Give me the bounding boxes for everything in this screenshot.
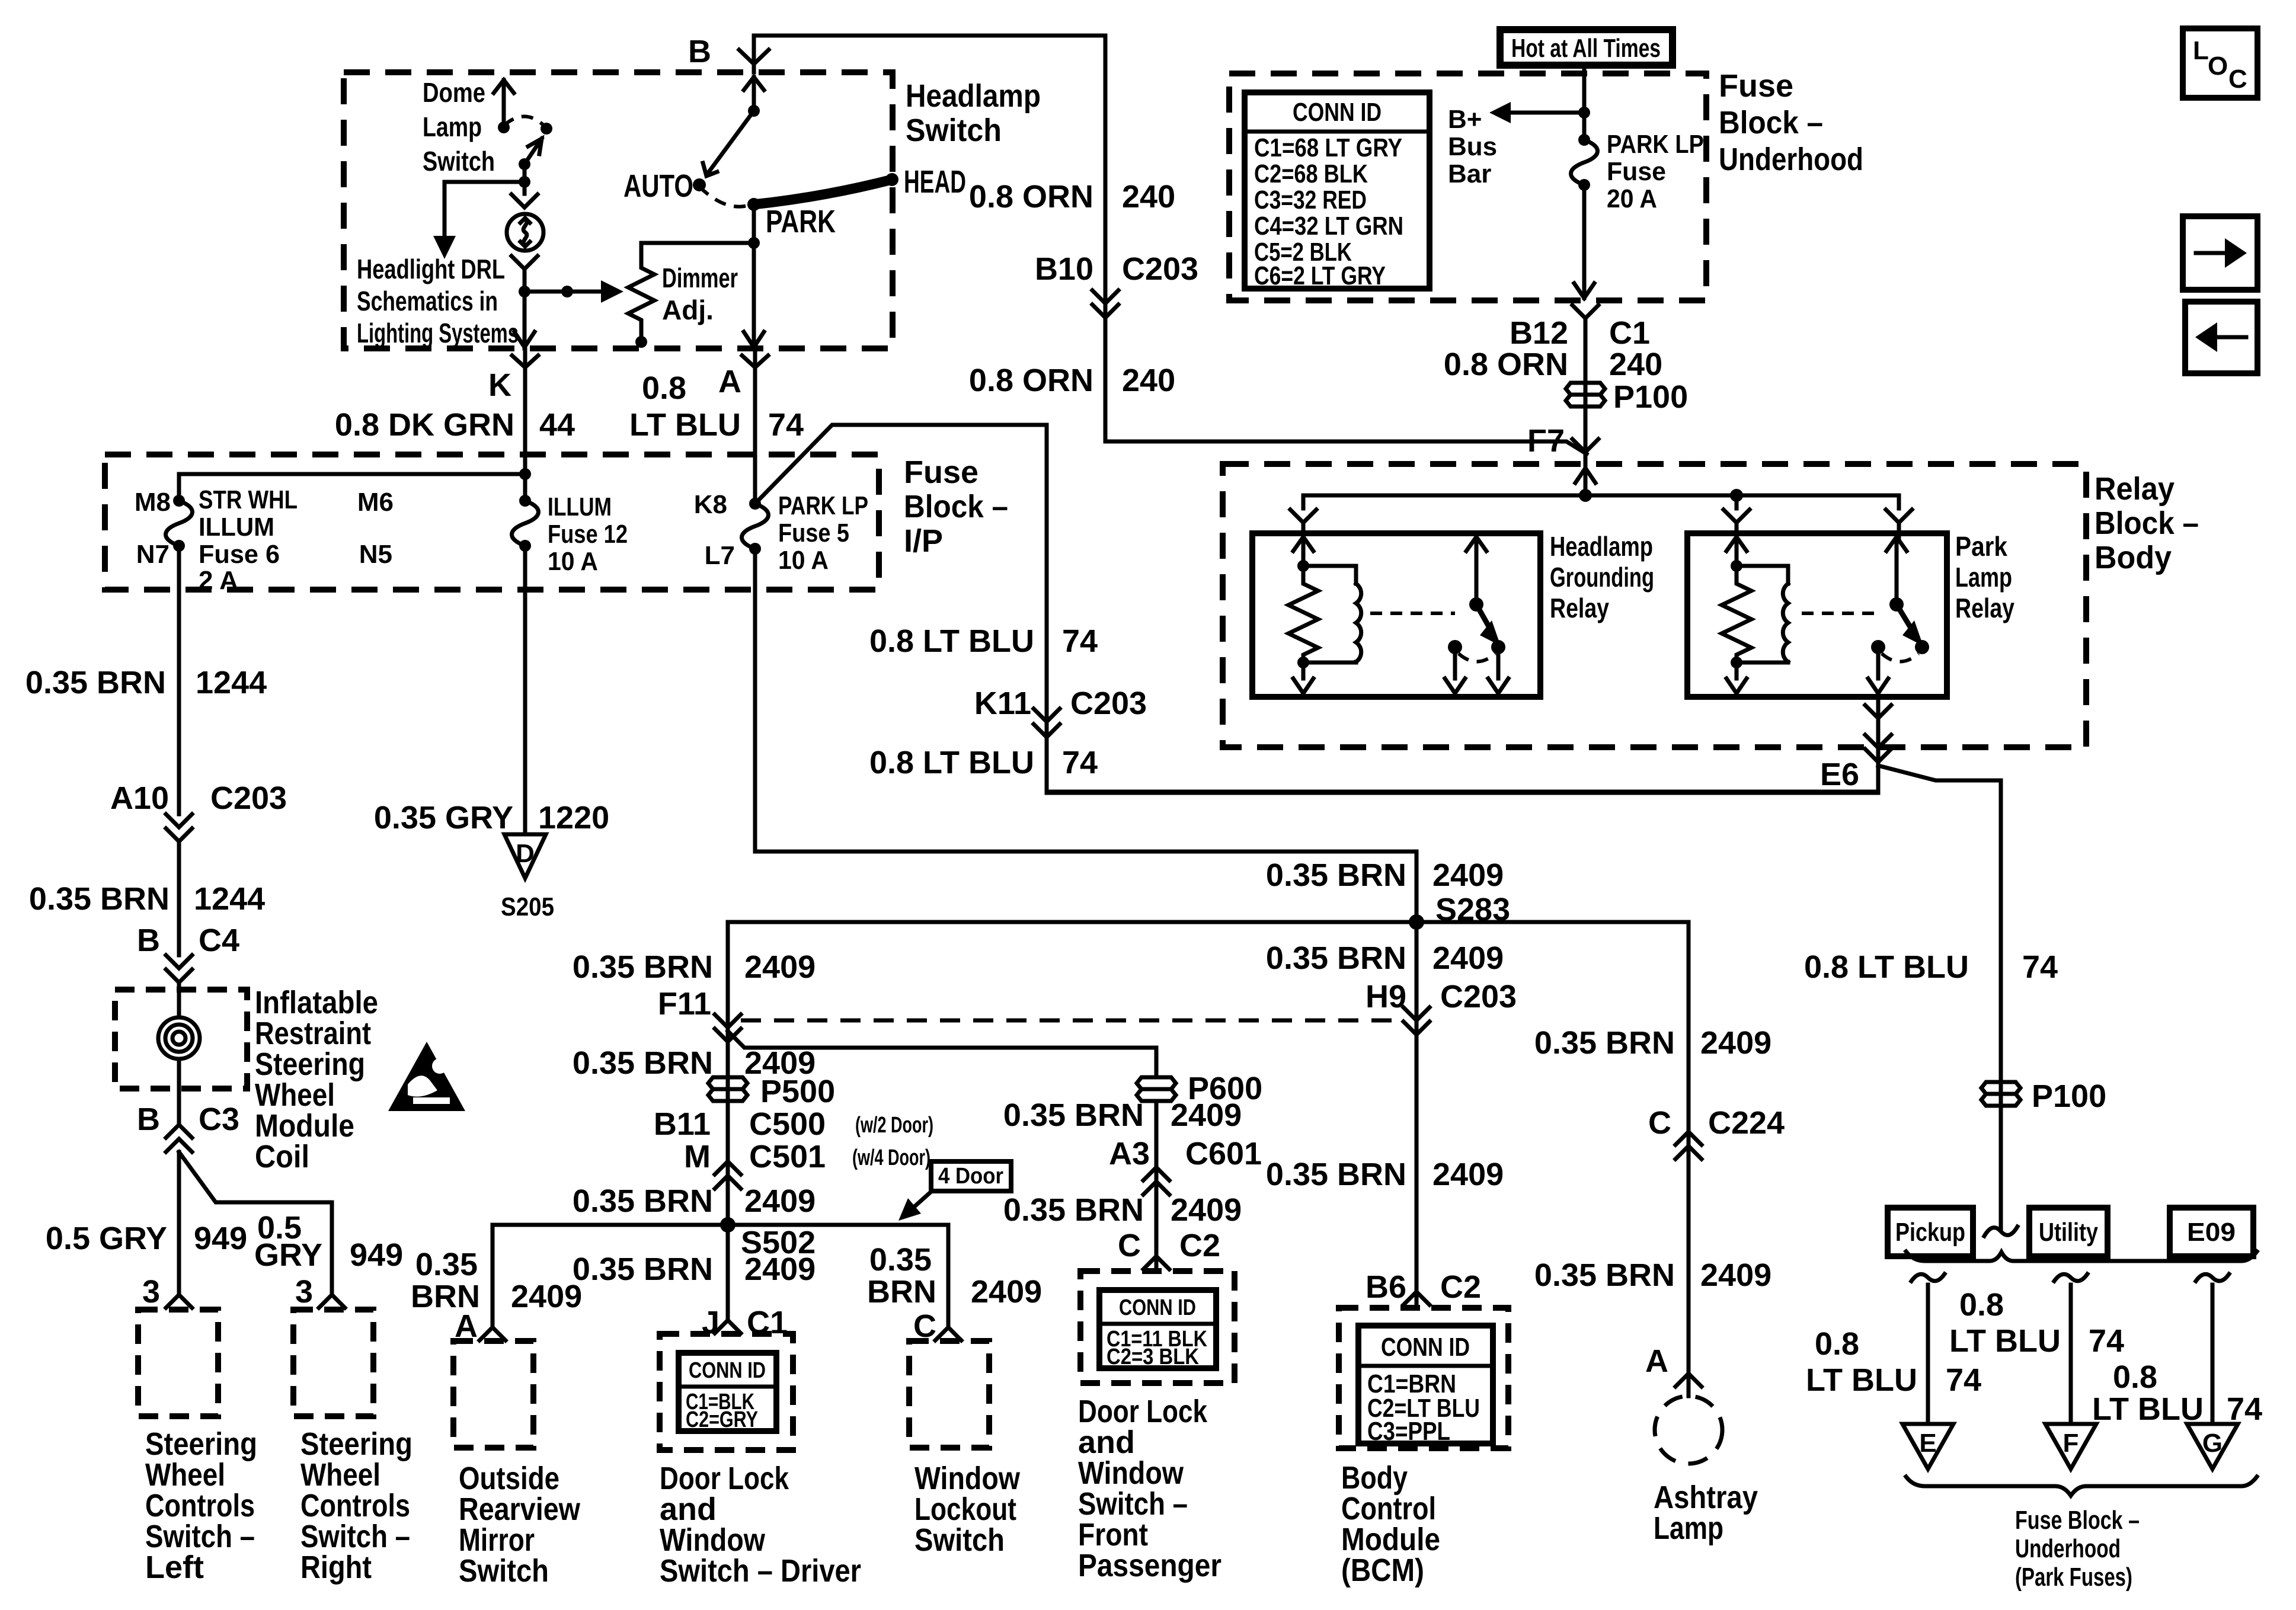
svg-text:Door Lock: Door Lock [1078, 1394, 1208, 1429]
svg-text:0.35: 0.35 [869, 1242, 932, 1278]
svg-text:CONN ID: CONN ID [1119, 1295, 1196, 1320]
svg-text:(Park Fuses): (Park Fuses) [2015, 1563, 2132, 1592]
svg-text:A: A [1645, 1343, 1668, 1379]
svg-text:2409: 2409 [744, 1183, 816, 1219]
svg-text:Relay: Relay [1550, 593, 1609, 623]
svg-text:Rearview: Rearview [459, 1491, 581, 1527]
svg-text:0.35 BRN: 0.35 BRN [25, 665, 166, 700]
svg-text:0.8: 0.8 [2113, 1359, 2157, 1395]
svg-text:Lamp: Lamp [1654, 1510, 1723, 1546]
svg-text:PARK LP: PARK LP [778, 491, 868, 520]
svg-text:PARK: PARK [766, 204, 836, 239]
svg-text:0.35 BRN: 0.35 BRN [573, 1045, 713, 1081]
svg-text:0.8 ORN: 0.8 ORN [969, 179, 1093, 215]
svg-text:4 Door: 4 Door [938, 1164, 1003, 1189]
svg-text:20 A: 20 A [1607, 184, 1657, 213]
svg-text:240: 240 [1609, 347, 1662, 382]
svg-text:2409: 2409 [1171, 1192, 1242, 1228]
svg-text:Relay: Relay [1955, 593, 2014, 623]
svg-text:Fuse 12: Fuse 12 [548, 520, 628, 549]
svg-text:E: E [1919, 1429, 1936, 1458]
svg-text:C4: C4 [199, 923, 239, 958]
svg-text:240: 240 [1122, 363, 1175, 398]
svg-text:Lamp: Lamp [423, 111, 482, 142]
svg-text:Block –: Block – [904, 489, 1008, 524]
svg-text:74: 74 [2227, 1391, 2262, 1427]
svg-text:C1: C1 [1609, 315, 1650, 351]
svg-text:C2=68 BLK: C2=68 BLK [1254, 159, 1368, 188]
svg-text:ILLUM: ILLUM [199, 513, 274, 542]
svg-text:Coil: Coil [255, 1139, 309, 1174]
svg-text:Hot at All Times: Hot at All Times [1511, 34, 1661, 63]
svg-text:GRY: GRY [254, 1237, 322, 1273]
svg-text:0.35 GRY: 0.35 GRY [374, 800, 513, 836]
svg-text:C2=GRY: C2=GRY [686, 1407, 758, 1432]
svg-text:1220: 1220 [538, 800, 609, 836]
svg-text:74: 74 [1946, 1362, 1981, 1398]
svg-text:Restraint: Restraint [255, 1016, 371, 1051]
svg-text:0.5 GRY: 0.5 GRY [46, 1221, 167, 1256]
svg-text:LT BLU: LT BLU [1806, 1362, 1917, 1398]
svg-text:C6=2 LT GRY: C6=2 LT GRY [1254, 261, 1386, 290]
svg-text:F7: F7 [1527, 423, 1565, 459]
svg-text:M8: M8 [135, 488, 171, 517]
svg-text:1244: 1244 [194, 881, 265, 917]
svg-text:LT BLU: LT BLU [2092, 1391, 2204, 1427]
svg-text:10 A: 10 A [548, 547, 598, 576]
svg-text:0.35 BRN: 0.35 BRN [1003, 1097, 1144, 1133]
svg-text:F11: F11 [658, 986, 711, 1022]
svg-text:Fuse 5: Fuse 5 [778, 518, 849, 548]
svg-text:C601: C601 [1185, 1136, 1262, 1172]
svg-text:A: A [718, 364, 741, 399]
svg-text:Body: Body [2094, 540, 2172, 575]
svg-text:3: 3 [142, 1274, 160, 1310]
svg-text:A10: A10 [110, 780, 169, 816]
svg-text:Fuse: Fuse [1719, 68, 1793, 104]
svg-text:Fuse: Fuse [1607, 157, 1666, 186]
svg-text:C: C [1118, 1228, 1141, 1263]
svg-text:0.8 LT BLU: 0.8 LT BLU [869, 745, 1034, 780]
svg-text:Steering: Steering [300, 1426, 412, 1462]
svg-text:2409: 2409 [1432, 1157, 1504, 1192]
svg-text:HEAD: HEAD [904, 164, 966, 200]
svg-text:P600: P600 [1188, 1071, 1262, 1106]
svg-text:Switch: Switch [423, 146, 495, 177]
svg-text:AUTO: AUTO [623, 168, 693, 204]
svg-text:I/P: I/P [904, 523, 943, 559]
svg-text:B: B [137, 923, 160, 958]
svg-text:Adj.: Adj. [662, 295, 714, 325]
svg-text:Front: Front [1078, 1517, 1148, 1553]
svg-text:Outside: Outside [459, 1461, 559, 1496]
svg-text:L7: L7 [705, 541, 735, 570]
svg-text:C3=32 RED: C3=32 RED [1254, 185, 1367, 215]
svg-text:Headlamp: Headlamp [906, 78, 1041, 114]
svg-text:Module: Module [255, 1108, 354, 1144]
svg-text:C501: C501 [749, 1139, 826, 1174]
svg-text:P100: P100 [2032, 1078, 2106, 1114]
svg-text:Switch: Switch [459, 1553, 549, 1589]
svg-text:Fuse: Fuse [904, 454, 978, 490]
svg-text:C3: C3 [199, 1102, 239, 1137]
svg-text:B: B [137, 1102, 160, 1137]
svg-text:2409: 2409 [744, 949, 816, 985]
svg-text:C203: C203 [1070, 686, 1147, 721]
svg-text:CONN ID: CONN ID [1293, 98, 1382, 127]
svg-text:2409: 2409 [1700, 1257, 1771, 1293]
svg-text:2409: 2409 [511, 1279, 582, 1314]
svg-text:K8: K8 [694, 490, 727, 519]
svg-text:Body: Body [1341, 1460, 1408, 1496]
svg-text:D: D [516, 839, 535, 868]
svg-text:2409: 2409 [744, 1251, 816, 1287]
svg-text:0.35 BRN: 0.35 BRN [573, 1183, 713, 1219]
svg-text:Schematics in: Schematics in [357, 286, 498, 316]
svg-text:0.8 ORN: 0.8 ORN [1444, 347, 1568, 382]
svg-text:0.35 BRN: 0.35 BRN [573, 949, 713, 985]
svg-text:Mirror: Mirror [459, 1522, 535, 1558]
svg-text:Underhood: Underhood [2015, 1534, 2121, 1563]
svg-text:Switch –: Switch – [300, 1519, 410, 1554]
svg-text:Lighting Systems: Lighting Systems [357, 318, 519, 348]
svg-text:Underhood: Underhood [1719, 142, 1863, 177]
svg-text:C4=32 LT GRN: C4=32 LT GRN [1254, 212, 1403, 241]
svg-text:B+: B+ [1448, 105, 1482, 134]
svg-text:Headlamp: Headlamp [1550, 531, 1653, 562]
svg-text:Controls: Controls [145, 1488, 255, 1523]
svg-text:LT BLU: LT BLU [1949, 1323, 2061, 1359]
svg-text:0.35 BRN: 0.35 BRN [29, 881, 170, 917]
svg-text:949: 949 [194, 1221, 247, 1256]
svg-text:G: G [2202, 1429, 2223, 1458]
svg-text:Control: Control [1341, 1491, 1436, 1526]
svg-text:C: C [2228, 65, 2247, 94]
svg-text:C2: C2 [1440, 1269, 1481, 1305]
svg-text:C: C [1648, 1105, 1671, 1141]
svg-text:M6: M6 [357, 488, 394, 517]
svg-text:(BCM): (BCM) [1341, 1553, 1424, 1588]
svg-text:LT BLU: LT BLU [629, 407, 741, 443]
svg-text:1244: 1244 [196, 665, 267, 700]
svg-text:Module: Module [1341, 1522, 1440, 1557]
svg-text:Right: Right [300, 1550, 372, 1585]
svg-text:CONN ID: CONN ID [689, 1358, 766, 1383]
svg-text:44: 44 [539, 407, 575, 443]
svg-text:CONN ID: CONN ID [1381, 1333, 1470, 1362]
svg-text:Utility: Utility [2039, 1218, 2098, 1247]
svg-text:74: 74 [2022, 949, 2058, 985]
svg-text:C500: C500 [749, 1106, 826, 1142]
svg-text:and: and [660, 1491, 717, 1527]
svg-text:M: M [684, 1139, 711, 1174]
svg-text:Switch –: Switch – [145, 1519, 255, 1554]
svg-text:0.8 LT BLU: 0.8 LT BLU [869, 623, 1034, 659]
svg-text:74: 74 [2089, 1323, 2124, 1359]
svg-text:Inflatable: Inflatable [255, 985, 378, 1020]
svg-text:0.35 BRN: 0.35 BRN [1003, 1192, 1144, 1228]
svg-text:Fuse Block –: Fuse Block – [2015, 1506, 2140, 1535]
svg-text:Steering: Steering [255, 1046, 365, 1082]
svg-text:Pickup: Pickup [1895, 1218, 1965, 1247]
svg-text:Passenger: Passenger [1078, 1548, 1221, 1583]
svg-text:C2=3 BLK: C2=3 BLK [1107, 1345, 1199, 1369]
svg-text:E6: E6 [1820, 757, 1859, 792]
svg-text:H9: H9 [1366, 979, 1406, 1014]
svg-text:Wheel: Wheel [300, 1457, 380, 1493]
svg-text:and: and [1078, 1425, 1135, 1460]
svg-text:ILLUM: ILLUM [548, 492, 612, 521]
svg-text:3: 3 [295, 1274, 313, 1310]
svg-text:P100: P100 [1613, 379, 1688, 415]
svg-text:0.35 BRN: 0.35 BRN [1534, 1257, 1675, 1293]
svg-text:Window: Window [660, 1522, 766, 1558]
svg-text:0.8 DK GRN: 0.8 DK GRN [335, 407, 514, 443]
svg-text:C3=PPL: C3=PPL [1367, 1417, 1450, 1446]
svg-text:Headlight DRL: Headlight DRL [357, 254, 505, 284]
svg-text:(w/2 Door): (w/2 Door) [855, 1113, 933, 1138]
svg-text:Left: Left [145, 1550, 204, 1585]
svg-text:Park: Park [1955, 531, 2007, 562]
svg-text:2409: 2409 [1700, 1025, 1771, 1061]
svg-text:0.35 BRN: 0.35 BRN [1534, 1025, 1675, 1061]
svg-text:C203: C203 [1440, 979, 1517, 1014]
svg-text:Block –: Block – [1719, 105, 1823, 140]
svg-text:N7: N7 [136, 540, 170, 569]
svg-text:Dimmer: Dimmer [662, 263, 738, 293]
svg-text:Wheel: Wheel [145, 1457, 225, 1493]
svg-text:Door Lock: Door Lock [660, 1461, 789, 1496]
svg-text:0.35 BRN: 0.35 BRN [1266, 940, 1406, 976]
svg-text:0.35 BRN: 0.35 BRN [1266, 857, 1406, 893]
svg-text:B10: B10 [1035, 251, 1093, 287]
svg-text:Bar: Bar [1448, 159, 1491, 188]
svg-text:C203: C203 [1122, 251, 1198, 287]
svg-text:O: O [2208, 52, 2228, 81]
svg-text:STR WHL: STR WHL [199, 485, 298, 514]
svg-text:Steering: Steering [145, 1426, 257, 1462]
svg-text:F: F [2063, 1429, 2079, 1458]
svg-text:0.8: 0.8 [1815, 1326, 1859, 1362]
svg-text:B6: B6 [1366, 1269, 1406, 1305]
svg-text:N5: N5 [359, 540, 392, 569]
svg-text:PARK LP: PARK LP [1607, 130, 1704, 159]
svg-text:Bus: Bus [1448, 132, 1497, 161]
svg-text:C224: C224 [1708, 1105, 1785, 1141]
svg-text:B: B [688, 34, 711, 69]
svg-text:240: 240 [1122, 179, 1175, 215]
svg-text:S283: S283 [1435, 892, 1510, 927]
svg-text:Lockout: Lockout [914, 1491, 1016, 1527]
svg-text:C1=68 LT GRY: C1=68 LT GRY [1254, 133, 1402, 162]
svg-text:Controls: Controls [300, 1488, 410, 1523]
svg-text:Switch: Switch [914, 1522, 1005, 1558]
svg-text:B12: B12 [1510, 315, 1568, 351]
svg-text:949: 949 [350, 1237, 403, 1273]
svg-text:BRN: BRN [867, 1274, 936, 1310]
svg-text:C203: C203 [210, 780, 287, 816]
svg-text:P500: P500 [760, 1074, 835, 1109]
svg-text:0.35 BRN: 0.35 BRN [573, 1251, 713, 1287]
svg-text:2409: 2409 [1432, 857, 1504, 893]
svg-text:Wheel: Wheel [255, 1077, 335, 1113]
svg-text:0.8 ORN: 0.8 ORN [969, 363, 1093, 398]
svg-text:Relay: Relay [2094, 471, 2175, 507]
svg-text:Block –: Block – [2094, 505, 2199, 541]
svg-text:Lamp: Lamp [1955, 562, 2012, 593]
svg-text:2 A: 2 A [199, 566, 238, 595]
svg-text:C2: C2 [1179, 1228, 1220, 1263]
svg-text:0.35 BRN: 0.35 BRN [1266, 1157, 1406, 1192]
svg-text:B11: B11 [654, 1106, 711, 1142]
svg-text:Switch: Switch [906, 113, 1002, 148]
svg-text:Window: Window [914, 1461, 1021, 1496]
svg-text:0.8 LT BLU: 0.8 LT BLU [1804, 949, 1969, 985]
svg-text:Grounding: Grounding [1550, 562, 1654, 593]
svg-text:2409: 2409 [1432, 940, 1504, 976]
svg-text:K11: K11 [974, 686, 1031, 721]
svg-text:Switch – Driver: Switch – Driver [660, 1553, 861, 1589]
svg-text:E09: E09 [2187, 1218, 2236, 1247]
svg-text:Window: Window [1078, 1455, 1184, 1491]
svg-text:2409: 2409 [971, 1274, 1042, 1310]
svg-text:74: 74 [1062, 623, 1098, 659]
svg-text:Dome: Dome [423, 77, 485, 108]
svg-text:Fuse 6: Fuse 6 [199, 540, 280, 569]
svg-text:0.8: 0.8 [1959, 1287, 2004, 1323]
svg-text:0.35: 0.35 [415, 1247, 478, 1282]
svg-text:74: 74 [768, 407, 804, 443]
svg-text:0.8: 0.8 [642, 370, 686, 406]
svg-text:S205: S205 [501, 892, 554, 921]
svg-text:K: K [488, 367, 511, 403]
svg-text:Ashtray: Ashtray [1654, 1480, 1758, 1515]
svg-text:(w/4 Door): (w/4 Door) [852, 1145, 930, 1170]
svg-text:74: 74 [1062, 745, 1098, 780]
svg-text:Switch –: Switch – [1078, 1486, 1188, 1522]
svg-text:L: L [2193, 36, 2209, 65]
svg-text:A3: A3 [1109, 1136, 1150, 1172]
svg-text:10 A: 10 A [778, 546, 829, 575]
